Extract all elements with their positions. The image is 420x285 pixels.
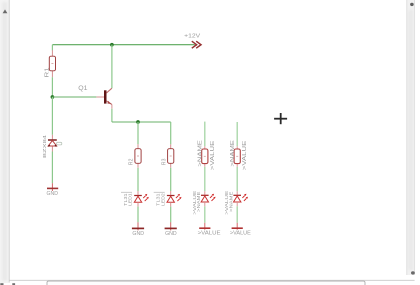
svg-text:GND: GND bbox=[165, 231, 177, 237]
ground branch1 bbox=[132, 222, 144, 237]
svg-text:GND: GND bbox=[47, 191, 59, 197]
svg-text:R2: R2 bbox=[129, 159, 135, 166]
wire R2 to LED1 bbox=[137, 168, 139, 191]
wire top rail +12V bbox=[52, 44, 194, 46]
+12V supply symbol bbox=[184, 34, 201, 49]
svg-text:>VALUE: >VALUE bbox=[210, 140, 216, 170]
svg-text:BZX84: BZX84 bbox=[42, 134, 48, 158]
wire left vertical (lower) bbox=[51, 97, 53, 135]
LED2 bbox=[154, 191, 182, 207]
wire R3 to LED2 bbox=[170, 168, 172, 191]
wire collector up bbox=[111, 45, 113, 88]
right scrollbar bbox=[407, 0, 415, 275]
wire LED1 to gnd bbox=[137, 207, 139, 223]
wire R1 to base junction bbox=[51, 77, 53, 97]
svg-text:>VALUE: >VALUE bbox=[230, 231, 251, 237]
supply terminal branch3 bbox=[198, 223, 221, 237]
junction dot emitter rail bbox=[136, 120, 140, 124]
wire emitter down bbox=[111, 105, 113, 109]
resistor R2 bbox=[129, 144, 141, 168]
ground branch2 bbox=[165, 222, 177, 237]
branch 3 : floating net wire bbox=[204, 122, 206, 147]
svg-text:R3: R3 bbox=[161, 159, 167, 166]
zener diode D1 BZX84 bbox=[42, 134, 62, 158]
supply terminal branch4 bbox=[230, 223, 251, 237]
svg-text:GND: GND bbox=[132, 231, 144, 237]
ground left bbox=[47, 183, 59, 197]
svg-text:>NAME: >NAME bbox=[229, 192, 234, 213]
resistor R1 bbox=[45, 50, 56, 77]
svg-text:Q1: Q1 bbox=[78, 85, 88, 92]
svg-text:LED2: LED2 bbox=[160, 193, 165, 206]
svg-text:>NAME: >NAME bbox=[196, 192, 201, 213]
resistor R4 (unnamed >NAME) bbox=[197, 140, 215, 170]
branch 1 : wire from rail bbox=[137, 122, 139, 144]
branch 4 : floating net wire bbox=[236, 122, 238, 146]
wire between bbox=[204, 167, 206, 191]
crosshair cursor bbox=[274, 113, 287, 124]
svg-text:>NAME: >NAME bbox=[230, 140, 236, 167]
LED4 (unnamed) bbox=[224, 191, 248, 215]
svg-text:LED1: LED1 bbox=[128, 193, 133, 206]
junction dot on top rail bbox=[110, 43, 114, 47]
bottom bar / command line bbox=[0, 280, 414, 285]
wire diode to gnd bbox=[51, 152, 53, 184]
transistor Q1 bbox=[78, 85, 112, 105]
left scrollbar bbox=[0, 0, 10, 283]
wire between bbox=[236, 167, 238, 191]
svg-text:>NAME: >NAME bbox=[197, 140, 203, 167]
wire base bbox=[52, 96, 96, 98]
junction dot base bbox=[51, 95, 55, 99]
wire LED2 to gnd bbox=[170, 207, 172, 223]
LED1 bbox=[121, 191, 149, 207]
LED3 (unnamed) bbox=[192, 191, 216, 215]
wire to terminal bbox=[204, 206, 206, 223]
svg-text:R1: R1 bbox=[45, 68, 51, 78]
svg-text:>VALUE: >VALUE bbox=[242, 140, 248, 170]
wire left vertical (top) bbox=[51, 45, 53, 51]
svg-text:+12V: +12V bbox=[184, 34, 200, 40]
svg-text:>VALUE: >VALUE bbox=[198, 231, 221, 237]
resistor R5 (unnamed >NAME) bbox=[230, 140, 248, 170]
branch 2 : wire from rail corner bbox=[170, 122, 172, 144]
resistor R3 bbox=[161, 144, 174, 168]
wire emitter rail bbox=[112, 121, 171, 123]
wire to terminal bbox=[236, 206, 238, 223]
